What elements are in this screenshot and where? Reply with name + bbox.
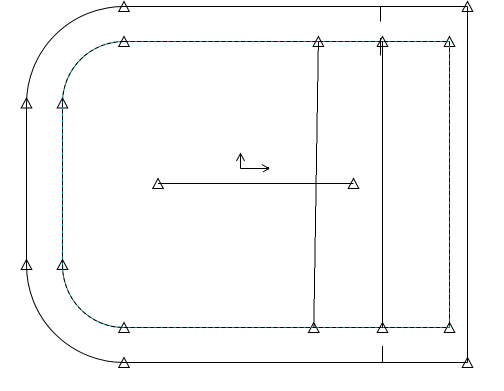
- vertical section line 1 (slanted): [314, 42, 319, 328]
- marker triangle inner bottom mid1: [309, 323, 320, 333]
- inner dashed profile bottom-left arc teal base: [63, 265, 125, 328]
- marker triangle inner top mid1: [313, 37, 324, 47]
- marker triangle outer top: [119, 2, 130, 12]
- outer profile right edge: [467, 7, 469, 363]
- marker triangle inner top-left tangent: [119, 37, 130, 47]
- marker triangle outer left lower: [21, 260, 32, 270]
- marker triangle inner top mid2: [377, 37, 388, 47]
- horizontal centre line: [158, 183, 354, 185]
- inner dashed profile top edge teal base: [124, 41, 450, 43]
- axes icon vertical shaft: [240, 154, 242, 169]
- inner dashed profile top-left arc black dashes: [63, 42, 125, 104]
- axes icon arrow tip dot: [267, 167, 270, 170]
- outer profile top edge: [124, 6, 468, 8]
- marker triangle inner left upper: [57, 98, 68, 108]
- marker triangle outer bottom-right: [462, 358, 473, 368]
- marker triangle outer left upper: [21, 98, 32, 108]
- vertical section line 2: [382, 42, 384, 328]
- inner dashed profile bottom edge teal base: [124, 327, 450, 329]
- marker triangle centre line right: [348, 179, 359, 189]
- marker triangle inner bottom-right: [444, 323, 455, 333]
- inner dashed profile right edge black dashes: [449, 42, 451, 328]
- marker triangle inner left lower: [57, 260, 68, 270]
- inner dashed profile bottom edge black dashes: [124, 327, 450, 329]
- inner dashed profile top edge black dashes: [124, 41, 450, 43]
- inner dashed profile left edge black dashes: [62, 103, 64, 265]
- inner dashed profile bottom-left arc black dashes: [63, 265, 125, 328]
- marker triangle centre line left: [153, 179, 164, 189]
- centerline tick top: [380, 7, 382, 22]
- outer profile top-left arc: [27, 7, 125, 105]
- axes icon vertical arrowhead: [237, 154, 245, 162]
- marker triangle inner bottom-left tangent: [119, 323, 130, 333]
- centerline short dash below top: [380, 38, 382, 56]
- axes icon horizontal shaft: [241, 168, 269, 170]
- inner dashed profile right edge teal base: [449, 42, 451, 328]
- outer profile bottom-left arc: [27, 265, 125, 363]
- marker triangle inner bottom mid2: [377, 323, 388, 333]
- axes icon horizontal arrowhead: [262, 165, 269, 173]
- inner dashed profile top-left arc teal base: [63, 42, 125, 104]
- marker triangle outer bottom: [119, 358, 130, 368]
- marker triangle inner top-right: [444, 37, 455, 47]
- outer profile left edge: [26, 104, 28, 265]
- inner dashed profile left edge teal base: [62, 103, 64, 265]
- outer profile bottom edge: [124, 362, 468, 364]
- centerline tick bottom: [382, 346, 384, 363]
- marker triangle outer top-right: [462, 2, 473, 12]
